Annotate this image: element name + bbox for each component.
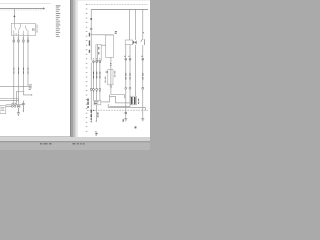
wire A from bus <box>90 10 92 61</box>
page gap shadow <box>71 0 73 137</box>
connector circles right bottom <box>125 87 144 89</box>
bottom dashed rail <box>87 109 148 111</box>
fuse F2 label above <box>110 63 111 66</box>
status bar text right <box>72 143 84 144</box>
interconnect lines bottom right <box>108 103 146 110</box>
module box at left edge <box>0 106 6 114</box>
capacitor C1 <box>22 101 25 111</box>
wire 2 <box>17 36 19 101</box>
horizontal feed line B <box>0 99 18 105</box>
bottom junction box <box>94 101 101 105</box>
wire from bus to bowtie <box>135 10 137 41</box>
arrowhead right <box>31 94 33 96</box>
wire 4 to off page left <box>0 36 28 87</box>
left page bottom edge <box>0 135 70 138</box>
fuse block box <box>96 45 101 61</box>
wire stubs below box with pin text <box>13 37 29 40</box>
relay K1 box <box>125 40 132 45</box>
ground G201 symbol <box>17 113 20 116</box>
power bus HOT AT ALL TIMES <box>0 8 43 10</box>
wire A below rail label <box>91 110 99 117</box>
wires into resistor <box>126 89 130 110</box>
junction link right <box>101 95 110 102</box>
wire A lower <box>90 63 92 122</box>
ground center label <box>123 119 124 122</box>
connector circles top row <box>93 61 101 63</box>
switch blade 3 <box>23 25 28 33</box>
fuse F2 splice circle below <box>110 86 112 88</box>
link from module to cluster <box>6 105 24 107</box>
wire labels mid left group <box>93 72 100 79</box>
connector circles bottom row left <box>90 89 101 91</box>
wires into bottom junction box <box>94 90 100 100</box>
right switch symbol <box>141 39 144 45</box>
fuse F2 right text <box>113 71 116 77</box>
frame top ruler <box>86 4 148 6</box>
junction box text <box>94 102 99 105</box>
off page label text <box>29 85 32 90</box>
page footnote text <box>95 131 97 135</box>
A/C control switch box SW1 <box>11 23 35 35</box>
ground center symbol <box>124 119 127 121</box>
sub rectangle <box>110 96 116 103</box>
pin numbers above box bottom <box>13 34 28 35</box>
wire labels right group <box>125 73 143 80</box>
connector circle b <box>14 105 16 107</box>
fuse element on wire A <box>90 28 92 29</box>
left page <box>0 0 70 137</box>
dark label text block <box>87 99 88 109</box>
module label <box>115 31 117 34</box>
wire from module to fuse F2 <box>110 57 112 69</box>
long feed right and down <box>111 95 125 99</box>
splice dot on wire A <box>90 18 92 20</box>
fuse inside block <box>98 45 106 61</box>
bottom bar <box>0 142 150 150</box>
bottom divider line <box>0 141 150 142</box>
bus arrowhead <box>43 7 45 9</box>
left page right edge <box>70 0 71 137</box>
bowtie contacts <box>133 40 135 44</box>
wire from bus to switch box <box>13 9 15 24</box>
wire from fuse F2 down <box>110 87 112 94</box>
resistor label <box>137 99 140 104</box>
relay K1 wire from bus <box>128 10 130 41</box>
pin labels above top circles <box>93 57 101 60</box>
power bus right page <box>91 9 148 11</box>
switch blade 1 <box>14 23 16 33</box>
cluster pin text <box>12 102 16 105</box>
connector circles right top <box>125 58 144 60</box>
horizontal feed line A <box>0 98 18 100</box>
ground G201 wire <box>17 108 19 113</box>
wires from fuse block down <box>94 61 100 89</box>
right wire to ground <box>142 89 144 118</box>
wire 3 with bend <box>16 36 23 105</box>
frame left ruler <box>86 4 88 131</box>
right page bottom edge <box>78 137 150 140</box>
wire A end symbol <box>90 118 97 123</box>
wire color labels column 1 <box>13 68 28 74</box>
relay output wires <box>126 45 136 96</box>
pin labels right top <box>124 56 142 57</box>
arrow down at capacitor branch <box>23 111 25 113</box>
diode D1 <box>17 105 19 108</box>
control module outline box <box>106 35 114 57</box>
connector ovals row C210 <box>13 40 29 43</box>
splice dot S201 <box>14 16 16 18</box>
right branch tiny label <box>142 32 144 33</box>
pin labels below bottom circles <box>93 90 101 93</box>
fuse F2 element <box>110 70 112 85</box>
fuse F2 box <box>108 70 113 85</box>
vertical component label right of box <box>36 25 39 33</box>
splice circle <box>125 112 127 114</box>
fuse label <box>98 47 99 54</box>
right wire from bus <box>142 10 144 89</box>
wire below junction to rail <box>95 105 97 121</box>
ground right symbol <box>141 119 144 121</box>
wire 1 <box>13 36 15 105</box>
module box text <box>1 107 5 111</box>
legend text column <box>56 5 61 36</box>
switch blade 2 <box>18 23 20 33</box>
diode bar <box>19 105 22 108</box>
blower resistor box <box>130 96 136 105</box>
N label <box>135 126 137 128</box>
wire below rail center with splice <box>125 110 127 118</box>
connector circle a <box>11 105 13 107</box>
status bar text left <box>40 143 52 144</box>
bus tick text row <box>1 9 43 12</box>
right page <box>78 0 150 138</box>
off page arrow wire <box>23 92 31 95</box>
fuse F2 left text <box>104 77 107 83</box>
resistor elements <box>131 97 136 104</box>
frame top border (faint) <box>0 2 51 5</box>
branch line to relay box <box>91 34 113 36</box>
fuse F2 left pin circle <box>106 71 108 73</box>
wire A labels <box>89 33 90 53</box>
bottom band under pages <box>0 137 150 141</box>
box internal label <box>32 28 34 31</box>
